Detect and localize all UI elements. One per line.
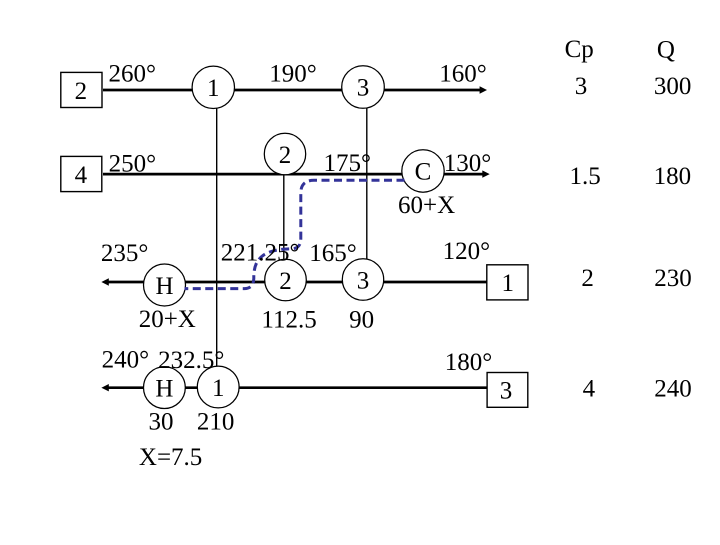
svg-text:H: H bbox=[155, 273, 173, 300]
svg-text:3: 3 bbox=[500, 378, 513, 405]
svg-text:3: 3 bbox=[575, 73, 588, 100]
svg-text:2: 2 bbox=[75, 78, 88, 105]
svg-text:X=7.5: X=7.5 bbox=[139, 444, 202, 471]
svg-text:1: 1 bbox=[207, 75, 220, 102]
svg-text:240: 240 bbox=[654, 376, 692, 403]
svg-text:Q: Q bbox=[657, 37, 675, 64]
svg-text:112.5: 112.5 bbox=[261, 307, 316, 334]
svg-text:235°: 235° bbox=[101, 240, 148, 267]
svg-text:232.5°: 232.5° bbox=[158, 347, 224, 374]
svg-text:260°: 260° bbox=[109, 61, 157, 88]
svg-text:230: 230 bbox=[654, 265, 692, 292]
svg-text:240°: 240° bbox=[102, 347, 150, 374]
svg-text:30: 30 bbox=[149, 409, 174, 436]
svg-text:210: 210 bbox=[197, 409, 235, 436]
svg-text:190°: 190° bbox=[269, 60, 317, 87]
svg-text:221.25°: 221.25° bbox=[221, 240, 300, 267]
svg-text:60+X: 60+X bbox=[398, 192, 455, 219]
svg-text:180°: 180° bbox=[445, 349, 493, 376]
svg-text:20+X: 20+X bbox=[139, 306, 196, 333]
svg-text:1.5: 1.5 bbox=[570, 163, 601, 190]
svg-text:300: 300 bbox=[654, 73, 692, 100]
svg-text:160°: 160° bbox=[439, 60, 487, 87]
svg-text:1: 1 bbox=[212, 375, 225, 402]
svg-text:1: 1 bbox=[502, 270, 515, 297]
svg-text:250°: 250° bbox=[109, 150, 157, 177]
svg-text:Cp: Cp bbox=[565, 36, 594, 63]
svg-text:3: 3 bbox=[357, 267, 370, 294]
svg-text:180: 180 bbox=[654, 163, 692, 190]
svg-text:165°: 165° bbox=[309, 240, 357, 267]
svg-text:2: 2 bbox=[581, 265, 594, 292]
svg-text:H: H bbox=[155, 375, 173, 402]
svg-text:4: 4 bbox=[583, 376, 596, 403]
svg-text:90: 90 bbox=[349, 307, 374, 334]
svg-text:3: 3 bbox=[357, 75, 370, 102]
svg-text:130°: 130° bbox=[444, 150, 492, 177]
svg-text:C: C bbox=[415, 158, 432, 185]
svg-text:175°: 175° bbox=[324, 150, 372, 177]
svg-text:120°: 120° bbox=[443, 238, 491, 265]
svg-text:4: 4 bbox=[75, 162, 88, 189]
svg-text:2: 2 bbox=[279, 142, 292, 169]
svg-text:2: 2 bbox=[279, 268, 292, 295]
